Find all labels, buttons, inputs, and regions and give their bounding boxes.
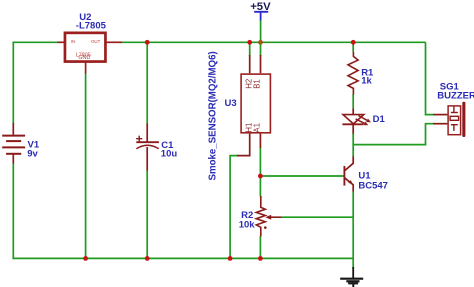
svg-text:10u: 10u bbox=[161, 149, 178, 160]
potentiometer R2 bbox=[256, 196, 281, 237]
node dot C1 bottom bbox=[145, 256, 150, 261]
resistor R1 bbox=[348, 52, 358, 95]
wire left column lower bbox=[12, 163, 14, 259]
svg-text:10k: 10k bbox=[239, 220, 256, 231]
node dot R1 rail bbox=[351, 40, 356, 45]
svg-text:Smoke_SENSOR(MQ2/MQ6): Smoke_SENSOR(MQ2/MQ6) bbox=[208, 51, 219, 180]
wire R1 to D1 bbox=[352, 94, 354, 109]
wire buzzer top feed bbox=[426, 42, 434, 114]
node dot base tap bbox=[258, 174, 263, 179]
svg-text:9v: 9v bbox=[27, 149, 38, 160]
node dot GND column bottom bbox=[83, 256, 88, 261]
svg-text:-L7805: -L7805 bbox=[76, 20, 107, 31]
wire U3 top pins upper green bbox=[250, 42, 261, 56]
svg-text:BUZZER: BUZZER bbox=[437, 90, 474, 101]
wire left column upper bbox=[12, 42, 14, 124]
wire top rail left segment bbox=[13, 41, 57, 43]
svg-text:A1: A1 bbox=[252, 123, 261, 133]
node dot R2 bottom bbox=[258, 256, 263, 261]
svg-text:1k: 1k bbox=[361, 75, 372, 86]
svg-text:GND: GND bbox=[78, 55, 90, 61]
wire H1 elbow bbox=[230, 156, 238, 259]
wire +5V stub to rail bbox=[260, 20, 262, 42]
wire U2 GND column bbox=[85, 73, 87, 258]
power +5V bbox=[250, 1, 271, 20]
node dot C1 top bbox=[145, 40, 150, 45]
node dot H2 rail bbox=[247, 40, 252, 45]
wire A1 to R2 bbox=[259, 147, 261, 197]
node dot B1 rail bbox=[258, 40, 263, 45]
battery V1 bbox=[2, 123, 25, 164]
wire D1 to collector node bbox=[352, 133, 354, 157]
svg-text:D1: D1 bbox=[373, 114, 386, 125]
wire bottom rail bbox=[13, 257, 353, 259]
wire top rail right of U2 bbox=[122, 41, 426, 43]
wire buzzer bottom feed bbox=[353, 124, 433, 145]
wire emitter to ground bbox=[352, 191, 354, 268]
svg-text:U3: U3 bbox=[225, 98, 237, 109]
svg-text:IN: IN bbox=[71, 39, 75, 44]
wire base bbox=[260, 175, 344, 177]
buzzer SG1 bbox=[433, 106, 461, 135]
ground bbox=[340, 267, 363, 287]
svg-text:BC547: BC547 bbox=[358, 180, 388, 191]
led D1 bbox=[342, 109, 367, 134]
svg-text:B1: B1 bbox=[252, 79, 261, 89]
capacitor C1 bbox=[136, 124, 159, 171]
wire C1 column upper bbox=[146, 42, 148, 124]
wire R2 bottom bbox=[259, 236, 261, 258]
svg-text:OUT: OUT bbox=[91, 39, 101, 44]
sensor U3 bbox=[237, 55, 270, 156]
wire wiper to emitter column bbox=[282, 216, 354, 218]
regulator U2 bbox=[58, 33, 123, 74]
transistor U1 bbox=[344, 157, 353, 192]
wire C1 column lower bbox=[146, 170, 148, 258]
wire R1 top bbox=[352, 42, 354, 51]
node dot H1 bottom bbox=[228, 256, 233, 261]
